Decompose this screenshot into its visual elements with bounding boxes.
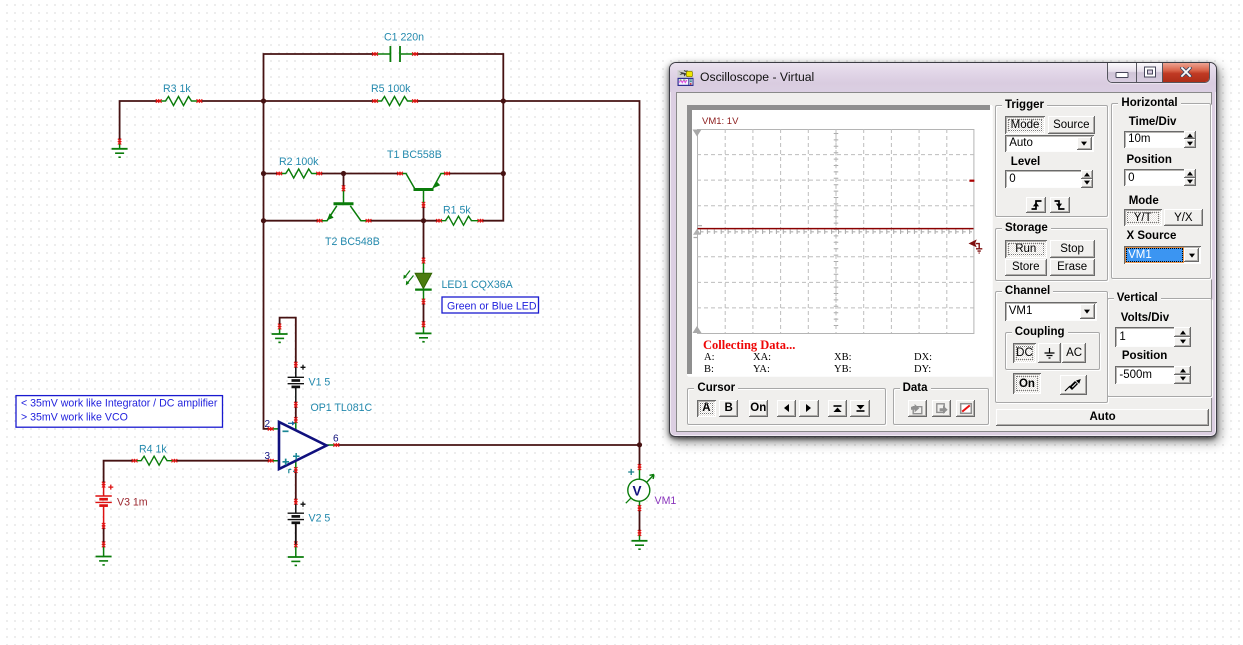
battery V1 5 <box>288 362 331 408</box>
ground for R3 <box>112 139 128 157</box>
wire R3 to node <box>199 100 263 102</box>
Collecting Data <box>703 338 795 353</box>
resistor R2 <box>276 156 322 178</box>
voltmeter VM1 <box>626 464 677 511</box>
falling edge button <box>1050 197 1070 213</box>
wire R5 right to top-right corner down to output node <box>415 101 640 467</box>
node junction R3/R5 left <box>261 98 266 103</box>
node junction output / VM1 <box>637 442 642 447</box>
maximize button <box>1136 63 1162 82</box>
wire V1 minus to op-amp V+ pin <box>295 405 297 420</box>
trigger level mark <box>970 179 975 181</box>
node junction R2 left rail <box>261 171 266 176</box>
Storage groupbox <box>995 228 1108 281</box>
wire V2 minus to ground <box>295 525 297 544</box>
Vertical groupbox <box>1107 298 1213 397</box>
svg-text:VM1: VM1 <box>655 495 677 507</box>
svg-text:V1 5: V1 5 <box>309 377 331 389</box>
wire R5 left <box>264 100 376 102</box>
ground G1 near V1 <box>272 324 288 343</box>
op-amp OP1 TL081C <box>265 402 373 473</box>
transistor T1 BC558B (PNP) <box>387 149 450 208</box>
battery V2 5 <box>288 499 331 545</box>
resistor R1 <box>436 205 483 226</box>
probe button <box>1060 375 1087 395</box>
wire op-amp V- pin to V2 <box>295 470 297 502</box>
svg-text:C1 220n: C1 220n <box>384 32 424 44</box>
ground for LED1 <box>416 321 432 341</box>
position markers <box>693 129 702 136</box>
wire V1 ground link <box>280 318 296 365</box>
node junction T2 base <box>341 171 346 176</box>
svg-text:OP1 TL081C: OP1 TL081C <box>311 402 373 414</box>
node junction T1 emitter rail <box>501 171 506 176</box>
wire R2 row <box>264 173 504 175</box>
svg-text:T1 BC558B: T1 BC558B <box>387 149 442 161</box>
minimize button <box>1108 63 1136 82</box>
wire pin3 row to R4 <box>174 460 270 462</box>
battery V3 1m <box>95 482 147 529</box>
svg-text:LED1 CQX36A: LED1 CQX36A <box>442 279 514 291</box>
center axis ticks <box>834 133 839 329</box>
scope display bezel <box>687 105 992 376</box>
transistor T2 BC548B (NPN) <box>317 185 380 248</box>
readout row B <box>704 364 714 375</box>
wire T1 base to R1 node <box>423 205 425 221</box>
node junction T1 base / R1 / LED <box>421 218 426 223</box>
wire V3 minus to ground <box>103 526 105 545</box>
node junction R5 right <box>501 98 506 103</box>
Data groupbox <box>893 388 990 425</box>
svg-text:V: V <box>633 484 642 499</box>
close button <box>1162 63 1209 82</box>
wire T2 emitter row <box>264 220 440 222</box>
window icon <box>677 69 694 87</box>
svg-text:R1 5k: R1 5k <box>443 205 471 217</box>
svg-text:V3 1m: V3 1m <box>117 497 148 509</box>
Trigger groupbox <box>995 105 1108 217</box>
ground for V3 <box>96 542 112 565</box>
svg-text:< 35mV work like Integrator /: < 35mV work like Integrator / DC amplifi… <box>21 398 218 410</box>
annotation box 35mV notes <box>16 396 223 428</box>
svg-text:R4 1k: R4 1k <box>139 444 167 456</box>
trace VM1 <box>698 227 974 229</box>
svg-text:R5 100k: R5 100k <box>371 83 411 95</box>
ground coupling button <box>1038 343 1061 363</box>
resistor R4 <box>132 444 178 466</box>
Cursor groupbox <box>687 388 886 425</box>
svg-text:R2 100k: R2 100k <box>279 156 319 168</box>
svg-text:Green or Blue LED: Green or Blue LED <box>447 300 537 312</box>
LED1 CQX36A <box>403 258 513 305</box>
wire R3 ground stem <box>120 101 159 142</box>
Channel groupbox <box>995 291 1108 403</box>
svg-text:3: 3 <box>265 451 271 462</box>
svg-text:T2 BC548B: T2 BC548B <box>325 236 380 248</box>
wire R4 left to V3 <box>104 461 135 485</box>
rising edge button <box>1026 197 1047 213</box>
wire VM1 bottom to ground <box>639 508 641 533</box>
wire T2 base drop <box>343 174 345 189</box>
Horizontal groupbox <box>1111 103 1210 280</box>
scope grid <box>697 129 975 334</box>
svg-text:V2 5: V2 5 <box>309 513 331 525</box>
svg-text:R3 1k: R3 1k <box>163 83 191 95</box>
wire net A left vertical with C1 top wire to op-amp pin 2 <box>264 54 376 429</box>
ground for VM1 <box>632 530 648 549</box>
y-axis small ticks at left <box>694 225 703 237</box>
svg-text:6: 6 <box>333 434 339 445</box>
resistor R5 <box>371 83 418 106</box>
ground for V2 <box>288 542 304 566</box>
wire op-amp output to VM1 node <box>336 444 639 446</box>
mouse cursor with ground glyph <box>967 237 984 255</box>
wire LED column <box>423 221 425 325</box>
channel label VM1: 1V <box>702 116 738 127</box>
resistor R3 <box>156 83 203 106</box>
capacitor C1 <box>372 32 424 63</box>
svg-text:> 35mV work like VCO: > 35mV work like VCO <box>21 412 128 424</box>
svg-text:2: 2 <box>265 419 271 430</box>
Auto button <box>996 409 1209 426</box>
Coupling groupbox <box>1005 332 1101 371</box>
annotation box Green or Blue LED <box>442 297 539 313</box>
node junction T2 emitter rail <box>261 218 266 223</box>
readout row A <box>704 352 715 363</box>
wire net B right vertical with C1 right wire down to R1 <box>415 54 503 221</box>
